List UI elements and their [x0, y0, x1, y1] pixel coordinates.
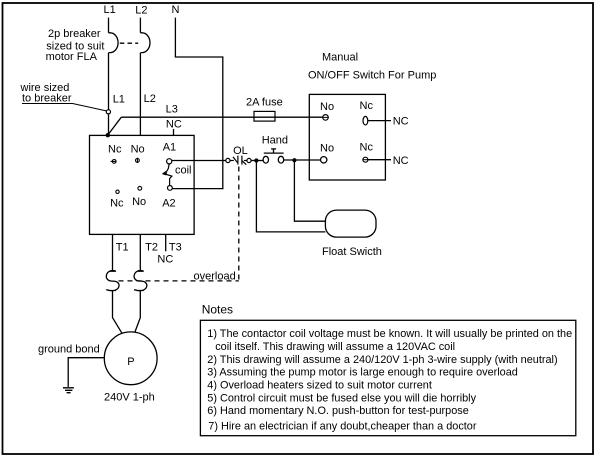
ground symbol	[63, 388, 74, 393]
contactor K1 terminal A2	[168, 186, 173, 191]
svg-text:7) Hire an electrician if any: 7) Hire an electrician if any doubt,chea…	[208, 421, 477, 433]
svg-text:ground bond: ground bond	[38, 343, 100, 355]
svg-text:P: P	[127, 356, 134, 368]
svg-text:Nc: Nc	[360, 141, 374, 153]
svg-text:motor FLA: motor FLA	[46, 51, 98, 63]
motor M1 (pump)	[104, 332, 157, 385]
contactor K1 coil arrowhead	[162, 172, 167, 176]
contactor K1 aux terminal Nc top	[111, 160, 117, 164]
svg-text:5) Control circuit must be fus: 5) Control circuit must be fused else yo…	[207, 392, 476, 404]
svg-text:NC: NC	[157, 254, 173, 266]
svg-text:Nc: Nc	[108, 143, 122, 155]
svg-text:Notes: Notes	[202, 303, 233, 317]
push-button Hand contact left	[263, 156, 268, 163]
svg-text:overload: overload	[194, 270, 236, 282]
svg-text:ON/OFF Switch For Pump: ON/OFF Switch For Pump	[308, 70, 436, 82]
svg-text:240V 1-ph: 240V 1-ph	[104, 392, 155, 404]
svg-text:No: No	[320, 101, 334, 113]
wire Nc row2 to NC	[368, 159, 391, 161]
wire A1 to OL contact	[172, 160, 226, 162]
contactor K1 body	[90, 135, 195, 234]
overload heater OL1 (T1)	[106, 271, 119, 291]
push-button Hand contact right	[278, 156, 283, 163]
wire control feed diagonal from L1 junction	[108, 117, 121, 135]
push-button Hand actuator	[264, 149, 284, 153]
wire Hand to switch box	[284, 159, 321, 161]
overload mechanical link dashed horizontal	[119, 280, 239, 282]
overload contact OL terminal right	[247, 158, 251, 162]
contactor K1 aux terminal Nc bottom	[116, 190, 119, 193]
breaker CB1 annotation text	[46, 28, 105, 63]
junction dot L1 at contactor	[106, 133, 110, 137]
svg-text:NC: NC	[393, 155, 409, 167]
svg-text:OL: OL	[233, 145, 248, 157]
contactor K1 terminal A1	[167, 159, 172, 164]
overload heater OL2 (T2)	[134, 271, 147, 291]
wire N feed (to A2)	[172, 18, 222, 189]
svg-text:L1: L1	[113, 94, 125, 106]
breaker CB1 pole 2 arc	[140, 33, 150, 53]
wire float switch lower	[256, 161, 325, 232]
svg-text:4) Overload heaters sized to s: 4) Overload heaters sized to suit motor …	[207, 380, 432, 392]
wire Nc row1 to NC	[368, 120, 391, 122]
svg-text:L2: L2	[135, 4, 147, 16]
float switch FS1 body	[325, 210, 376, 237]
svg-text:No: No	[132, 196, 146, 208]
svg-text:No: No	[131, 143, 145, 155]
svg-text:N: N	[172, 4, 180, 16]
svg-text:Manual: Manual	[322, 51, 358, 63]
svg-text:No: No	[320, 143, 334, 155]
svg-text:NC: NC	[166, 118, 182, 130]
breaker CB1 pole 1 arc	[109, 33, 119, 53]
svg-text:A1: A1	[163, 141, 176, 153]
wire T2 upper	[139, 234, 141, 271]
label overload	[193, 270, 239, 283]
svg-text:T1: T1	[116, 241, 129, 253]
switch S1 title	[308, 51, 436, 81]
wire T3 stub	[165, 234, 167, 251]
svg-text:to breaker: to breaker	[22, 93, 72, 105]
svg-text:L2: L2	[144, 93, 156, 105]
wire ground bond	[68, 358, 104, 387]
wire T1 lower to motor	[113, 291, 123, 334]
breaker CB1 mechanical link (dashed)	[120, 42, 138, 44]
leader line to node L1	[22, 104, 106, 111]
wire control feed horizontal (through fuse to switch)	[121, 116, 322, 118]
switch S1 terminal Nc row 2	[363, 157, 368, 162]
svg-text:3) Assuming the pump motor is: 3) Assuming the pump motor is large enou…	[207, 367, 518, 379]
svg-text:2) This drawing will assume a: 2) This drawing will assume a 240/120V 1…	[207, 354, 557, 366]
switch S1 body	[309, 94, 385, 180]
wire T2 lower to motor	[135, 291, 141, 333]
svg-text:coil itself. This drawing will: coil itself. This drawing will assume a …	[215, 341, 455, 353]
junction dot (float switch lower tap)	[254, 158, 258, 162]
svg-text:Nc: Nc	[110, 198, 124, 210]
wire OL to Hand button	[251, 160, 263, 162]
svg-text:Float Swicth: Float Swicth	[322, 246, 382, 258]
fuse F1 body	[254, 111, 275, 121]
wire L3 stub	[173, 129, 175, 136]
wire float switch upper	[294, 160, 325, 221]
svg-text:Hand: Hand	[262, 134, 288, 146]
switch S1 terminal Nc row 1	[363, 116, 368, 125]
svg-text:T3: T3	[169, 241, 182, 253]
svg-text:T2: T2	[145, 241, 158, 253]
node L1 (open circle)	[106, 110, 110, 114]
annotation: wire sized to breaker	[20, 82, 72, 104]
svg-text:NC: NC	[393, 115, 409, 127]
svg-text:2A fuse: 2A fuse	[246, 97, 283, 109]
svg-text:6) Hand momentary N.O. push-bu: 6) Hand momentary N.O. push-button for t…	[207, 405, 469, 417]
svg-text:coil: coil	[175, 165, 192, 177]
wire T1 upper	[112, 234, 114, 271]
contactor K1 aux terminal No bottom	[138, 186, 142, 190]
switch S1 terminal No row 1	[323, 115, 329, 121]
wire L2 feed	[139, 18, 141, 136]
overload contact OL terminal left	[226, 158, 230, 162]
wire L1 feed	[108, 18, 110, 135]
svg-text:1) The contactor coil voltage: 1) The contactor coil voltage must be kn…	[207, 328, 572, 340]
svg-text:A2: A2	[162, 198, 175, 210]
notes text	[207, 328, 572, 432]
contactor K1 aux terminal No top	[136, 158, 140, 163]
notes box	[200, 320, 575, 435]
overload contact OL symbol	[230, 156, 247, 165]
svg-text:Nc: Nc	[360, 100, 374, 112]
junction dot (float switch upper tap)	[292, 158, 296, 162]
svg-text:L3: L3	[166, 103, 178, 115]
contactor K1 coil winding	[163, 164, 172, 186]
svg-text:L1: L1	[104, 4, 116, 16]
overload mechanical link dashed vertical	[238, 167, 240, 281]
svg-text:2p breaker: 2p breaker	[48, 28, 101, 40]
switch S1 terminal No row 2	[321, 157, 327, 163]
